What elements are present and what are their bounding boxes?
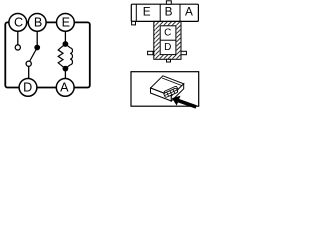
connector body column (hatched) — [154, 21, 181, 59]
left tab — [148, 51, 153, 54]
divider B/A — [179, 4, 181, 21]
wire resistor bottom join — [61, 65, 66, 69]
wire E stem — [64, 31, 66, 44]
junction dot bottom of coil — [63, 66, 69, 72]
right tab — [181, 51, 186, 54]
svg-text:E: E — [62, 16, 70, 30]
pointer arrow — [172, 96, 197, 109]
wire contact to D — [28, 66, 30, 78]
terminal E — [57, 14, 75, 32]
top tab — [166, 1, 171, 4]
svg-text:C: C — [164, 27, 171, 38]
resistor R (zigzag) — [58, 48, 63, 65]
wire C stem — [17, 31, 19, 45]
junction dot top of coil — [63, 41, 69, 47]
divider E/B — [159, 4, 161, 21]
bottom-left tab — [132, 21, 136, 25]
contact (open) above D — [26, 61, 31, 66]
svg-text:E: E — [143, 4, 151, 18]
svg-text:B: B — [34, 16, 42, 30]
svg-text:D: D — [164, 42, 171, 53]
svg-text:D: D — [23, 80, 32, 94]
terminal C — [9, 14, 27, 32]
relay connector socket — [163, 86, 179, 98]
terminal D — [19, 79, 37, 97]
svg-text:A: A — [185, 4, 193, 18]
relay lid line — [162, 78, 183, 86]
relay location box — [131, 72, 199, 107]
divider C/D — [160, 39, 176, 41]
contact (open) below C — [15, 45, 20, 50]
wire coil bottom join — [65, 65, 70, 69]
relay body left face — [151, 88, 172, 101]
svg-text:B: B — [165, 4, 173, 18]
relay internal schematic frame — [5, 22, 90, 87]
terminal A — [56, 79, 74, 97]
relay body right face — [171, 84, 183, 101]
terminal B — [28, 14, 46, 32]
junction dot at B — [34, 45, 40, 51]
wire branch to coil — [65, 44, 70, 48]
coil L1 (relay coil) — [70, 48, 72, 65]
wire B stem — [36, 31, 38, 47]
bottom foot — [167, 59, 171, 62]
switch arm — [30, 48, 38, 62]
svg-text:A: A — [60, 80, 69, 94]
wire to A — [64, 69, 66, 79]
connector pinout top row — [131, 4, 198, 21]
svg-text:C: C — [14, 16, 23, 30]
relay body top face — [151, 76, 184, 96]
divider left — [135, 4, 137, 21]
wire branch to resistor — [61, 44, 66, 48]
